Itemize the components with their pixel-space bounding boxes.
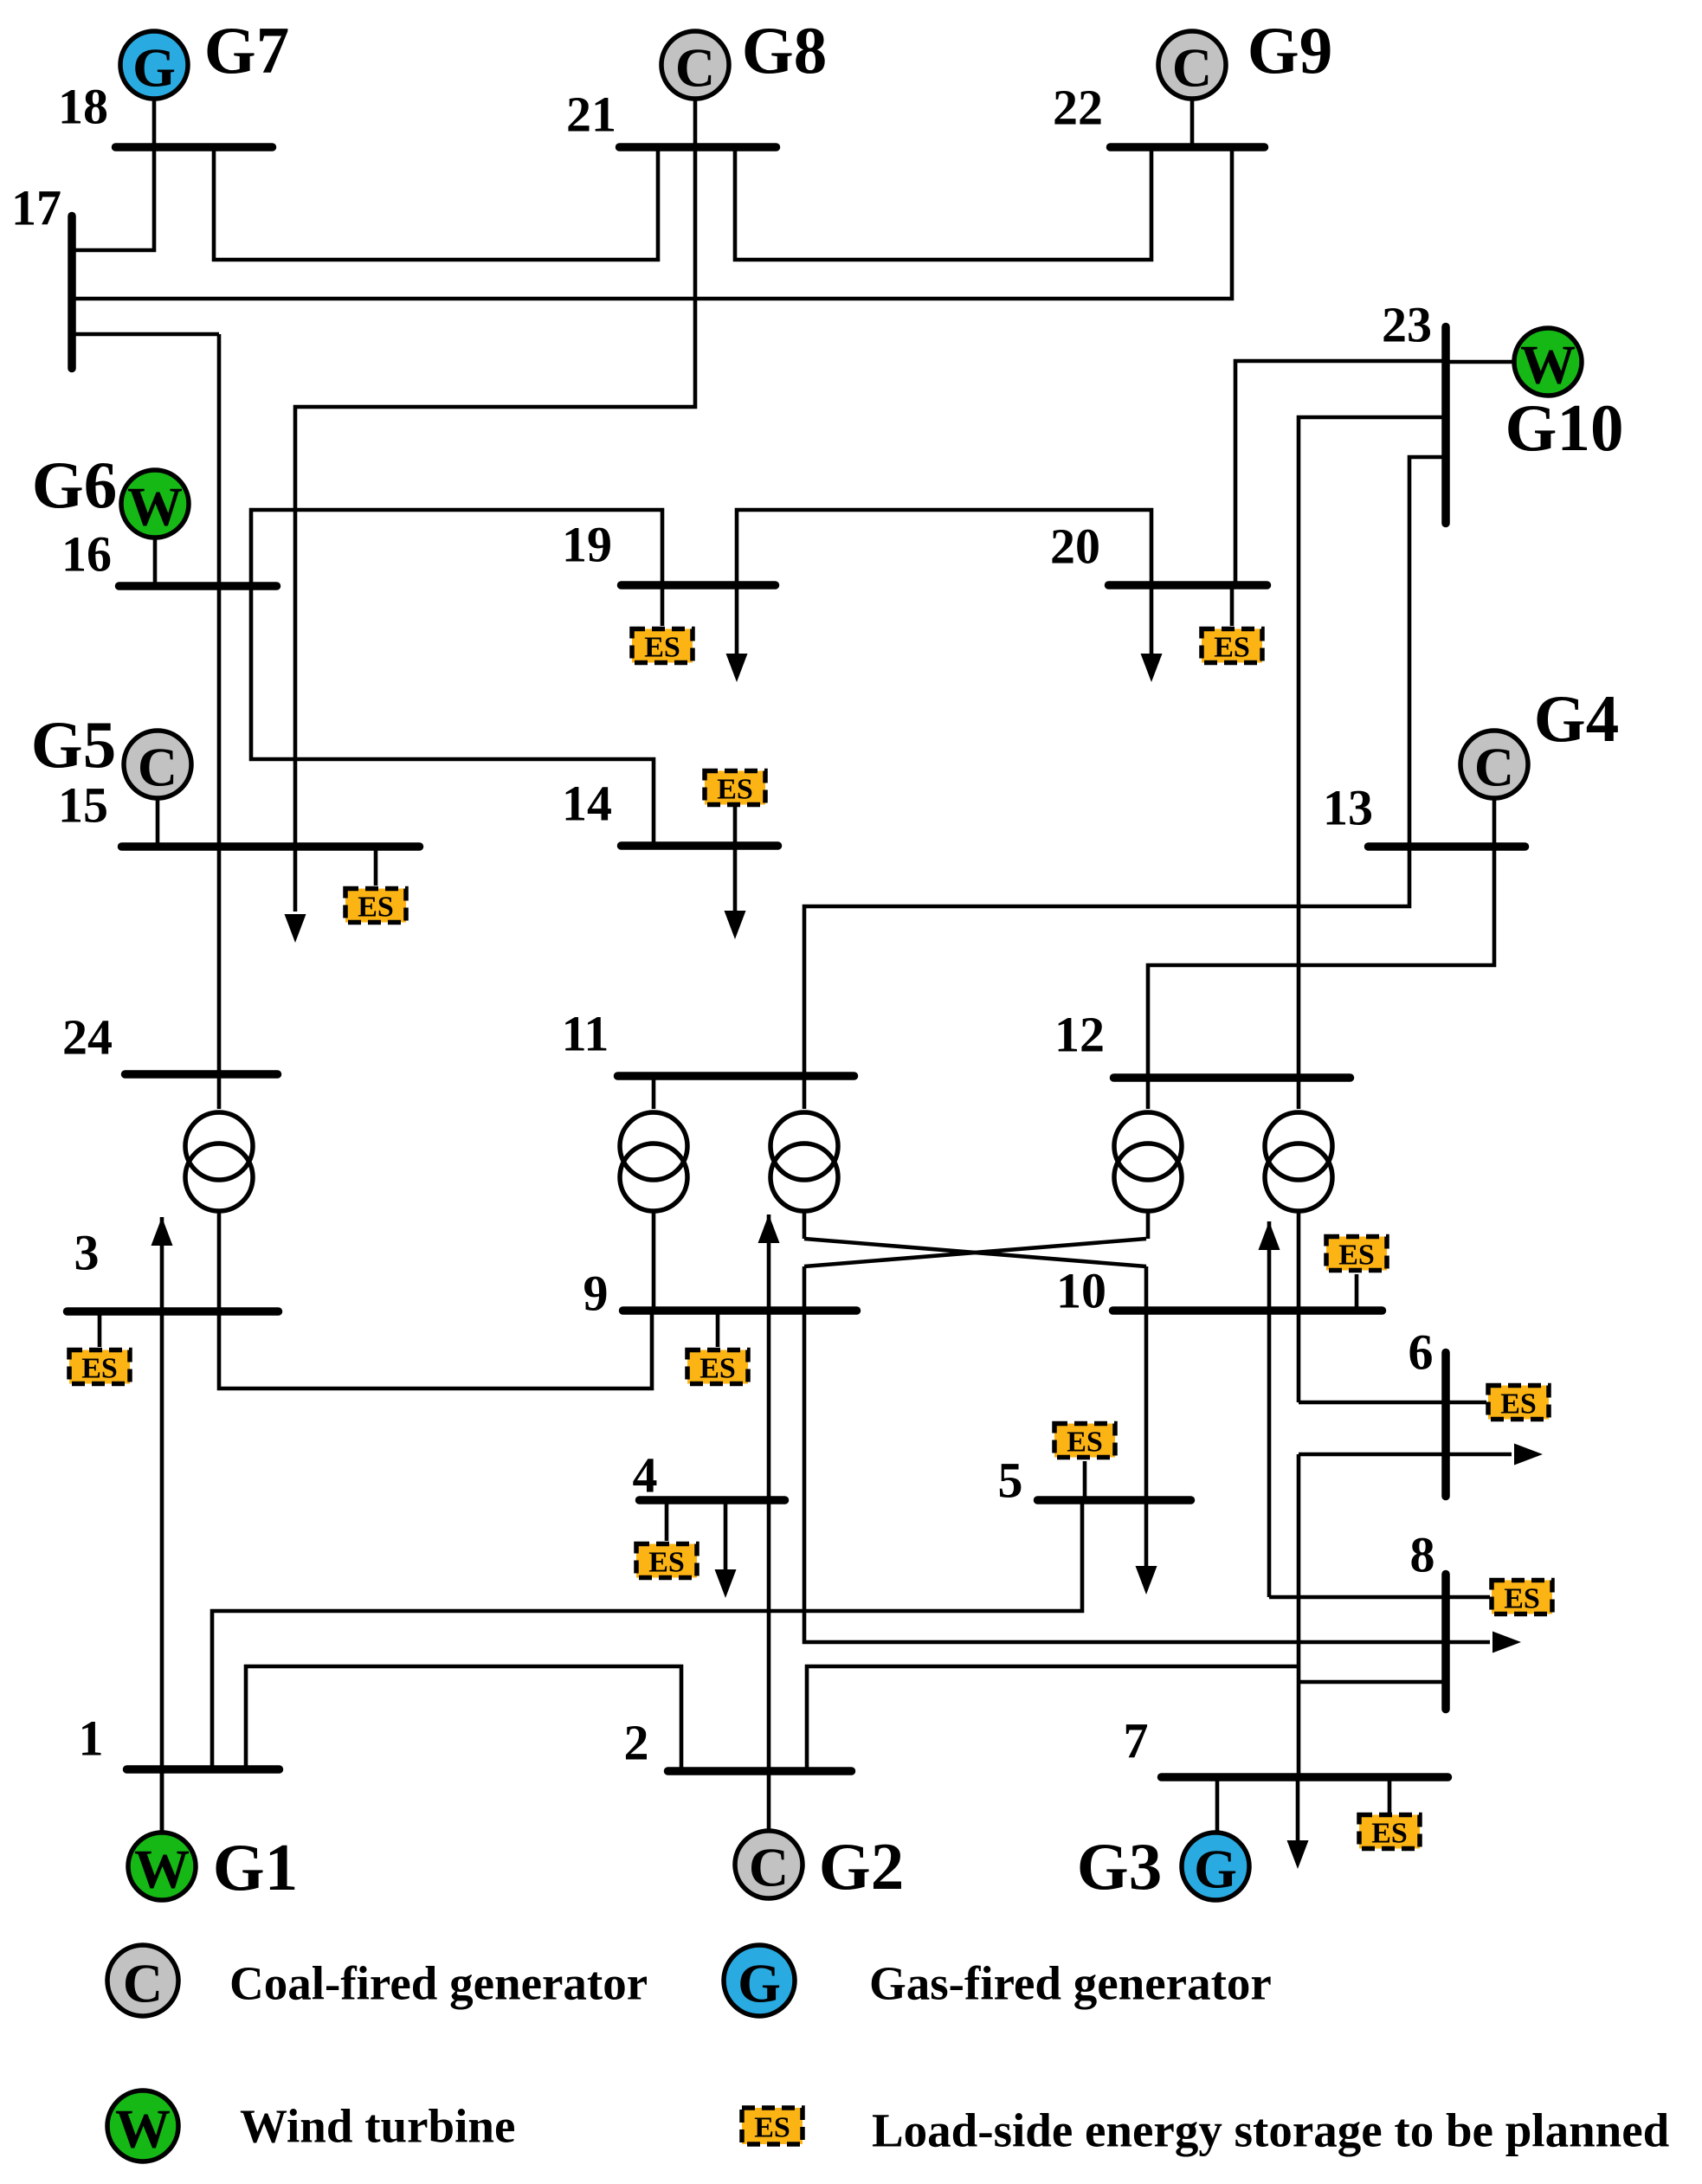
svg-text:W: W [115,2098,171,2160]
svg-text:G2: G2 [819,1829,904,1904]
svg-text:ES: ES [1067,1427,1103,1459]
svg-text:9: 9 [583,1266,609,1322]
svg-text:G10: G10 [1505,390,1624,465]
svg-text:2: 2 [624,1715,649,1771]
svg-text:Coal-fired generator: Coal-fired generator [229,1957,648,2010]
svg-text:C: C [749,1837,789,1898]
svg-text:ES: ES [1500,1388,1537,1421]
svg-text:7: 7 [1124,1713,1149,1769]
svg-text:15: 15 [58,777,108,834]
svg-text:1: 1 [79,1710,104,1767]
svg-text:Wind turbine: Wind turbine [240,2100,515,2153]
svg-text:Gas-fired generator: Gas-fired generator [869,1957,1272,2010]
svg-text:ES: ES [699,1353,736,1385]
svg-text:G4: G4 [1534,681,1619,756]
svg-text:G: G [738,1953,781,2014]
svg-text:5: 5 [998,1453,1023,1509]
svg-text:ES: ES [358,892,394,924]
svg-text:ES: ES [648,1547,685,1579]
svg-text:6: 6 [1409,1324,1434,1381]
svg-text:20: 20 [1050,519,1100,575]
svg-text:14: 14 [562,776,612,832]
svg-text:G8: G8 [742,13,827,87]
svg-text:C: C [1474,737,1514,798]
svg-text:G: G [132,37,176,99]
svg-text:W: W [1520,334,1576,396]
svg-text:G3: G3 [1077,1829,1162,1904]
svg-text:ES: ES [717,774,753,806]
svg-text:ES: ES [81,1353,118,1385]
svg-text:ES: ES [1214,632,1250,664]
svg-text:ES: ES [644,632,680,664]
svg-text:8: 8 [1410,1527,1435,1583]
svg-text:ES: ES [1504,1583,1540,1615]
svg-text:13: 13 [1323,780,1373,836]
svg-text:21: 21 [566,87,616,143]
svg-text:G1: G1 [213,1830,298,1904]
svg-text:22: 22 [1053,80,1103,136]
svg-text:23: 23 [1382,297,1432,353]
svg-text:C: C [675,37,715,99]
svg-text:G: G [1194,1839,1237,1900]
svg-text:W: W [134,1839,190,1900]
svg-text:17: 17 [11,180,61,236]
svg-text:Load-side energy storage to be: Load-side energy storage to be planned [872,2104,1669,2157]
svg-text:G7: G7 [204,13,289,87]
svg-text:ES: ES [754,2112,790,2144]
svg-text:ES: ES [1338,1240,1375,1272]
svg-text:G5: G5 [31,707,116,782]
svg-text:24: 24 [62,1009,113,1066]
svg-text:19: 19 [562,517,612,573]
svg-text:12: 12 [1054,1007,1105,1063]
svg-text:3: 3 [74,1225,100,1281]
svg-text:ES: ES [1371,1818,1408,1850]
svg-text:W: W [127,476,183,538]
svg-text:C: C [138,737,177,798]
svg-text:11: 11 [562,1006,609,1062]
svg-text:18: 18 [58,79,108,135]
svg-text:G9: G9 [1247,13,1332,87]
svg-text:G6: G6 [32,448,117,522]
svg-text:10: 10 [1056,1263,1106,1319]
svg-text:C: C [1172,37,1212,99]
svg-text:C: C [123,1953,163,2014]
svg-text:4: 4 [633,1447,658,1504]
svg-text:16: 16 [61,526,112,583]
